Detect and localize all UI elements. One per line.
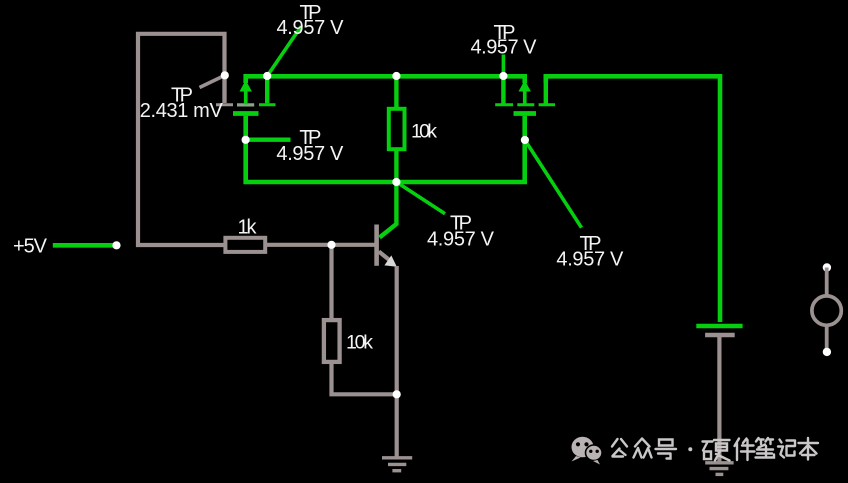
wire +5V stub bbox=[53, 243, 117, 248]
transistor M2 channel dash middle bbox=[517, 103, 534, 106]
svg-text:10k: 10k bbox=[411, 121, 437, 143]
transistor M1 body arrow bbox=[240, 80, 252, 104]
transistor M2 gate plate bbox=[514, 111, 537, 116]
wire green top rail (M1 arrow to M2 rail-end) bbox=[246, 76, 525, 83]
node rail at TP stem bbox=[499, 72, 507, 80]
node rail at M1 source / TP bbox=[263, 72, 271, 80]
transistor M1 source lead (right leg) bbox=[265, 76, 269, 103]
node base bbox=[327, 241, 335, 249]
svg-text:4.957 V: 4.957 V bbox=[276, 143, 344, 165]
transistor M1 channel dash source (green) bbox=[259, 103, 276, 106]
svg-text:1k: 1k bbox=[238, 217, 258, 239]
svg-text:4.957 V: 4.957 V bbox=[277, 17, 345, 39]
wire TP stem (rail test point 2) bbox=[502, 55, 506, 77]
wire TP pointer (rail test point 1) bbox=[267, 27, 301, 77]
transistor M2 channel dash right bbox=[539, 103, 555, 106]
resistor R2 10k (green) bbox=[389, 109, 405, 149]
wire TP pointer (M1 gate test point) bbox=[246, 137, 291, 141]
wire TP pointer (collector test point) bbox=[396, 182, 445, 214]
node rail at R2 top bbox=[392, 72, 400, 80]
ground GND2 bbox=[705, 463, 733, 475]
node gray loop TP bbox=[221, 71, 229, 79]
node terminal of +5V bbox=[112, 241, 120, 249]
char 硬 bbox=[703, 440, 730, 461]
wire base node to Q1 base bbox=[332, 243, 376, 247]
probe P1 lead bottom bbox=[825, 325, 829, 352]
probe P1 circle bbox=[812, 296, 841, 325]
svg-text:10k: 10k bbox=[346, 332, 373, 354]
transistor Q1 collector lead bbox=[380, 182, 397, 238]
ground GND1 bbox=[382, 458, 412, 471]
probe P1 lead top bbox=[825, 268, 829, 297]
svg-text:4.957 V: 4.957 V bbox=[471, 37, 538, 59]
wire rail to R2 bbox=[394, 76, 398, 109]
wire R2 to gate bus node bbox=[394, 151, 398, 183]
battery V1 positive plate (green) bbox=[696, 324, 742, 329]
char 笔 bbox=[756, 438, 775, 458]
wire battery to ground bbox=[717, 337, 721, 462]
svg-text:+5V: +5V bbox=[13, 236, 48, 258]
transistor Q1 NPN body bar bbox=[374, 225, 379, 266]
char 号 bbox=[656, 440, 677, 459]
wire gray loop (drain net of M1 to 1k) bbox=[138, 34, 225, 245]
separator dot bbox=[688, 447, 692, 451]
wire R1 to base node bbox=[267, 243, 332, 247]
transistor M1 gate plate bbox=[233, 111, 259, 116]
transistor M2 channel dash left bbox=[495, 103, 513, 106]
char 记 bbox=[778, 440, 795, 458]
node gate bus / collector bbox=[392, 178, 400, 186]
node M1 gate TP bbox=[242, 136, 250, 144]
transistor M1 channel dash drain (gray) bbox=[216, 103, 233, 106]
transistor M2 right leg bbox=[544, 76, 548, 104]
svg-text:4.957 V: 4.957 V bbox=[556, 249, 624, 271]
wire TP pointer (M2 gate test point) bbox=[525, 140, 582, 228]
svg-text:2.431 mV: 2.431 mV bbox=[140, 100, 224, 122]
probe P1 terminal dot bottom bbox=[823, 348, 831, 356]
svg-text:4.957 V: 4.957 V bbox=[427, 228, 495, 250]
node M2 gate bbox=[521, 136, 529, 144]
wire emitter node to ground bbox=[395, 394, 399, 456]
battery V1 negative plate (gray) bbox=[705, 333, 735, 337]
resistor R1 1k bbox=[225, 238, 265, 252]
wire green top rail right segment to battery bbox=[546, 76, 720, 322]
watermark text 公众号·硬件笔记本 (drawn strokes) bbox=[612, 438, 818, 461]
wire TP pointer (loop test point, gray) bbox=[200, 76, 225, 88]
watermark wechat icon bbox=[572, 437, 603, 465]
wire base node down to R3 bbox=[329, 245, 333, 319]
transistor M2 PMOS: left leg bbox=[501, 76, 505, 104]
char 公 bbox=[612, 439, 627, 457]
wire M1 gate bus down, across, up to M2 gate bbox=[246, 116, 525, 182]
transistor Q1 emitter lead with arrow bbox=[379, 252, 397, 395]
transistor M1 channel dash middle (dim) bbox=[237, 103, 254, 106]
wire R3 to emitter node bbox=[332, 363, 397, 394]
probe P1 terminal dot top bbox=[823, 263, 831, 271]
node emitter bbox=[393, 390, 401, 398]
char 众 bbox=[634, 439, 652, 458]
char 件 bbox=[735, 439, 755, 461]
transistor M1 PMOS: drain lead (gray, from loop) bbox=[222, 75, 226, 103]
resistor R3 10k bbox=[324, 320, 340, 362]
transistor M2 body arrow bbox=[519, 80, 531, 104]
char 本 bbox=[799, 438, 819, 460]
